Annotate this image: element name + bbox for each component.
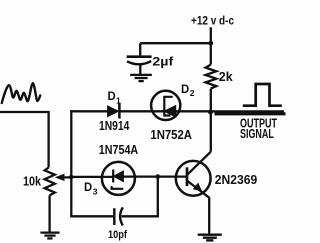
wire: pot bottom to ground xyxy=(48,195,50,232)
wire: D2 cathode to output node xyxy=(176,110,210,112)
potentiometer R1 xyxy=(45,168,55,196)
capacitor C2 10pf xyxy=(114,207,123,225)
wire: junction down to C2 xyxy=(157,177,159,217)
svg-text:1N754A: 1N754A xyxy=(99,143,138,157)
svg-text:1N914: 1N914 xyxy=(99,119,129,133)
node: output junction xyxy=(208,110,213,115)
resistor R2 2k xyxy=(206,65,217,89)
label D1 xyxy=(108,91,122,105)
ground below C1 xyxy=(130,75,152,81)
wire: +12V supply rail down to resistor xyxy=(210,27,212,64)
svg-text:1: 1 xyxy=(116,95,121,105)
diode D1 xyxy=(108,103,120,119)
wiper arrow of R1 xyxy=(56,174,71,180)
svg-text:SIGNAL: SIGNAL xyxy=(240,126,274,141)
wire: left rail (D1 anode to bottom loop) xyxy=(70,110,72,216)
ground below emitter xyxy=(198,235,222,241)
output trace underline xyxy=(215,112,286,115)
ground below potentiometer xyxy=(40,233,59,239)
node: wiper / left rail junction xyxy=(69,175,74,180)
zener diode D3 xyxy=(102,162,135,195)
capacitor C1 2uf xyxy=(127,43,152,74)
svg-text:D: D xyxy=(108,91,116,103)
wire: D1 anode line xyxy=(70,110,108,112)
transistor Q1 xyxy=(176,152,211,198)
wire: emitter to ground xyxy=(208,197,210,234)
svg-text:3: 3 xyxy=(93,186,98,196)
wire: input line to potentiometer xyxy=(0,112,49,168)
wire: output line xyxy=(211,110,285,112)
svg-text:+12 v d-c: +12 v d-c xyxy=(191,13,234,27)
wire: bottom loop left segment xyxy=(70,215,113,217)
svg-text:2k: 2k xyxy=(219,69,234,84)
svg-text:10pf: 10pf xyxy=(108,229,127,241)
wire: D1 cathode to D2 xyxy=(121,110,165,112)
node: base / C2 junction xyxy=(156,174,161,179)
wire: rail to D3 xyxy=(70,176,113,178)
svg-text:D: D xyxy=(181,84,189,96)
svg-text:2N2369: 2N2369 xyxy=(215,172,257,187)
node: supply / C1 junction xyxy=(208,41,213,46)
svg-text:1N752A: 1N752A xyxy=(150,128,192,142)
wire: supply rail to capacitor C1 xyxy=(140,42,211,44)
label OUTPUT SIGNAL xyxy=(240,116,277,141)
label D3 xyxy=(84,182,98,196)
wire: resistor to output node xyxy=(210,89,212,112)
input noise waveform xyxy=(2,83,40,103)
wire: collector riser (node to transistor) xyxy=(210,112,212,152)
label D2 xyxy=(181,84,195,98)
wire: bottom loop right segment xyxy=(122,215,159,217)
svg-text:D: D xyxy=(84,182,92,194)
zener diode D2 xyxy=(151,91,180,120)
svg-text:2µf: 2µf xyxy=(152,55,174,69)
svg-text:10k: 10k xyxy=(23,173,42,188)
svg-text:2: 2 xyxy=(190,88,195,98)
wire: D3 cathode to transistor base xyxy=(123,175,187,177)
output pulse symbol xyxy=(243,84,282,106)
